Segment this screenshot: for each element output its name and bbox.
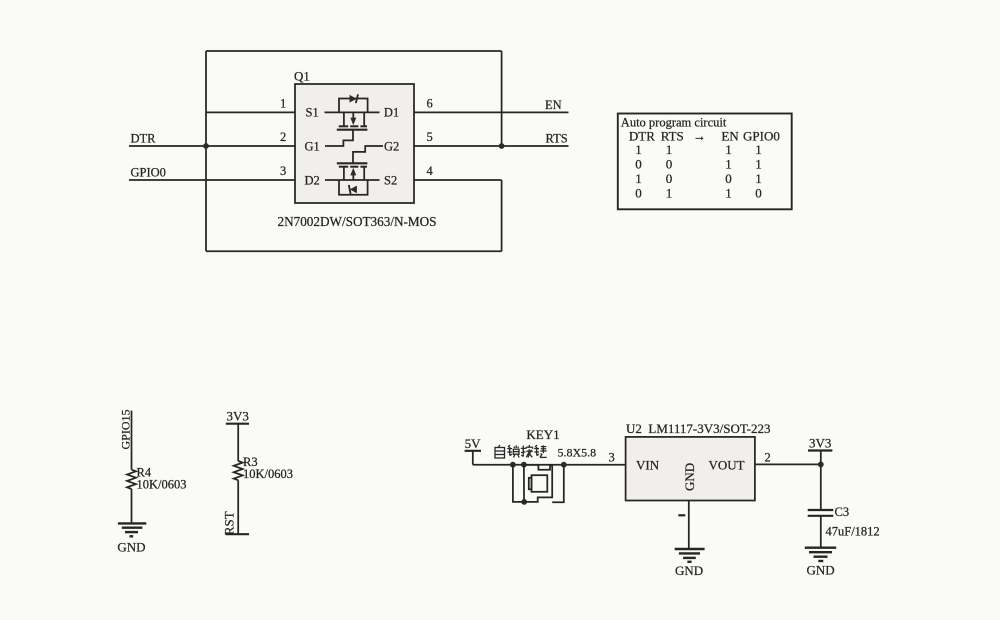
svg-text:KEY1: KEY1 — [526, 427, 559, 442]
svg-text:VIN: VIN — [636, 458, 660, 473]
chinese char jian — [534, 445, 546, 457]
svg-text:3V3: 3V3 — [809, 436, 831, 451]
svg-text:0: 0 — [725, 171, 732, 186]
svg-text:GPIO0: GPIO0 — [131, 166, 166, 180]
wire pin 4 — [414, 179, 502, 181]
table row 2 values — [635, 157, 762, 172]
svg-text:→: → — [693, 128, 706, 143]
wire VOUT to 3V3 — [755, 463, 821, 465]
junction dot KEY1 terminal b — [521, 462, 527, 468]
diode cathode bar lower — [349, 185, 351, 194]
svg-text:1: 1 — [725, 157, 732, 172]
svg-text:5.8X5.8: 5.8X5.8 — [558, 446, 597, 460]
table row 4 values — [635, 186, 762, 201]
upper MOSFET body arrow (down) — [352, 112, 354, 118]
svg-text:DTR: DTR — [131, 132, 157, 146]
svg-text:1: 1 — [666, 142, 673, 157]
table row 3 values — [635, 171, 762, 186]
wire C3 to ground — [820, 516, 822, 548]
switch KEY1 right bracket — [552, 465, 564, 503]
svg-text:G2: G2 — [384, 139, 399, 153]
wire 3V3 drop — [820, 451, 822, 465]
capacitor C3 plates — [808, 509, 834, 511]
svg-text:D1: D1 — [384, 106, 399, 120]
svg-text:1: 1 — [755, 171, 762, 186]
svg-text:5V: 5V — [465, 436, 482, 451]
wire DTR (pin 2) — [129, 145, 295, 147]
svg-text:1: 1 — [635, 171, 642, 186]
wire EN (pin 6) — [414, 111, 569, 113]
svg-text:2N7002DW/SOT363/N-MOS: 2N7002DW/SOT363/N-MOS — [278, 214, 437, 229]
svg-text:2: 2 — [280, 130, 286, 144]
svg-text:RST: RST — [222, 511, 237, 535]
svg-text:0: 0 — [666, 157, 673, 172]
wire D2-S2 internal row — [325, 179, 380, 181]
svg-text:1: 1 — [725, 186, 732, 201]
svg-text:0: 0 — [635, 186, 642, 201]
port bar RST (bottom) — [226, 533, 249, 535]
switch KEY1 body outline — [524, 465, 552, 502]
diode triangle upper (points right) — [350, 95, 357, 103]
ground symbol under R4 — [118, 523, 146, 536]
wire G2 lead and gate staircase — [353, 146, 383, 163]
svg-text:10K/0603: 10K/0603 — [243, 467, 293, 481]
diode cathode bar upper — [356, 94, 358, 103]
svg-text:RTS: RTS — [546, 132, 568, 146]
table Auto program circuit box — [618, 114, 792, 210]
svg-text:1: 1 — [755, 142, 762, 157]
svg-text:Q1: Q1 — [294, 69, 310, 84]
wire outer-loop bottom edge — [206, 250, 502, 252]
power port bar 3V3 (R3 top) — [226, 423, 249, 425]
svg-text:GND: GND — [807, 563, 835, 578]
power port bar 5V — [465, 450, 481, 452]
svg-text:3: 3 — [609, 450, 615, 464]
wire outer-loop right edge lower segment — [501, 180, 503, 251]
lower MOSFET contact bars — [339, 166, 367, 168]
switch KEY1 button inner square — [532, 475, 548, 492]
svg-text:3V3: 3V3 — [227, 409, 249, 424]
svg-text:0: 0 — [666, 171, 673, 186]
svg-text:DTR: DTR — [629, 128, 655, 143]
switch KEY1 button clip — [529, 478, 532, 490]
chinese char zi (self-locking button label) — [495, 445, 505, 458]
ground symbol under C3 — [805, 548, 836, 561]
junction dot KEY1 terminal d — [521, 499, 527, 505]
chinese char an — [521, 445, 533, 458]
upper MOSFET contact bars — [339, 125, 367, 127]
svg-text:0: 0 — [635, 157, 642, 172]
svg-text:1: 1 — [280, 96, 286, 110]
svg-text:EN: EN — [545, 98, 562, 112]
wire U2 GND pin down — [688, 501, 690, 550]
svg-text:4: 4 — [427, 164, 434, 178]
ground symbol under U2 — [675, 549, 705, 562]
wire R4 to ground — [131, 489, 133, 523]
svg-text:10K/0603: 10K/0603 — [137, 478, 187, 492]
svg-text:S1: S1 — [306, 106, 319, 120]
transistor Q1 body box — [295, 84, 414, 203]
svg-text:Auto program circuit: Auto program circuit — [621, 116, 727, 130]
body diode of lower MOSFET loop — [339, 180, 368, 195]
wire GPIO0 (pin 3) — [129, 179, 295, 181]
svg-text:U2 LM1117-3V3/SOT-223: U2 LM1117-3V3/SOT-223 — [626, 421, 770, 436]
wire outer-loop right edge upper segment — [501, 51, 503, 146]
svg-text:GND: GND — [682, 463, 697, 491]
wire RTS (pin 5) — [414, 145, 569, 147]
upper MOSFET channel drops — [343, 112, 345, 125]
wire 3V3 node to C3 — [820, 464, 822, 510]
wire GPIO15 vertical — [131, 411, 133, 470]
chinese char suo — [507, 445, 519, 458]
svg-text:1: 1 — [725, 142, 732, 157]
wire 5V drop — [472, 451, 474, 465]
junction dot KEY1 terminal c — [561, 462, 567, 468]
wire G1 lead and gate staircase — [325, 130, 353, 146]
svg-text:1: 1 — [755, 157, 762, 172]
wire 5V to VIN — [473, 464, 626, 466]
wire pin 1 — [206, 111, 295, 113]
svg-text:GND: GND — [675, 563, 703, 578]
svg-text:GND: GND — [117, 540, 145, 555]
wire outer-loop left edge — [205, 51, 207, 251]
wire outer-loop top edge — [206, 50, 502, 52]
body diode D of upper MOSFET loop — [339, 99, 368, 113]
svg-text:VOUT: VOUT — [709, 458, 745, 473]
svg-text:D2: D2 — [305, 173, 320, 187]
svg-text:1: 1 — [635, 142, 642, 157]
lower MOSFET channel risers — [343, 167, 345, 180]
regulator U2 box — [626, 437, 755, 501]
svg-text:C3: C3 — [835, 505, 850, 519]
svg-text:2: 2 — [765, 450, 771, 464]
junction dot 3V3 node — [818, 462, 824, 468]
svg-text:GPIO15: GPIO15 — [119, 409, 133, 449]
svg-text:3: 3 — [280, 164, 286, 178]
junction dot DTR / left edge — [203, 143, 209, 149]
svg-text:1: 1 — [666, 186, 673, 201]
svg-text:47uF/1812: 47uF/1812 — [826, 525, 880, 539]
table row 1 values — [635, 142, 762, 157]
wire 3V3 to R3 — [237, 424, 239, 461]
resistor R3 zigzag — [234, 461, 243, 480]
svg-text:5: 5 — [427, 130, 433, 144]
lower MOSFET body arrow (up) — [352, 175, 354, 180]
junction dot RTS / right edge — [499, 143, 505, 149]
svg-text:G1: G1 — [305, 139, 320, 153]
pin number 1 (rotated dash) — [678, 514, 685, 516]
svg-text:6: 6 — [427, 96, 433, 110]
upper MOSFET gate plate — [337, 129, 368, 131]
svg-text:0: 0 — [755, 186, 762, 201]
power port bar 3V3 (right) — [808, 449, 832, 451]
resistor R4 zigzag — [127, 470, 136, 489]
svg-text:S2: S2 — [384, 173, 397, 187]
switch KEY1 left bracket — [513, 465, 524, 502]
wire R3 to RST — [237, 480, 239, 534]
wire S1-D1 internal row — [325, 111, 380, 113]
lower MOSFET gate plate — [337, 162, 368, 164]
junction dot KEY1 terminal a — [510, 462, 516, 468]
diode triangle lower (points left) — [350, 186, 357, 194]
